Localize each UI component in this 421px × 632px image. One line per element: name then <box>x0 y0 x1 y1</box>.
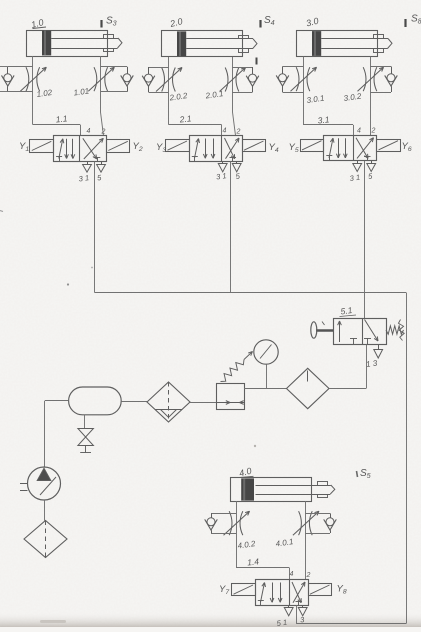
svg-text:4: 4 <box>223 128 227 135</box>
svg-text:4: 4 <box>357 128 361 135</box>
svg-text:3 1: 3 1 <box>78 173 90 183</box>
svg-text:2: 2 <box>101 129 106 136</box>
svg-text:1 3: 1 3 <box>366 358 379 369</box>
svg-text:2: 2 <box>306 572 311 579</box>
svg-text:5 1: 5 1 <box>276 618 288 627</box>
svg-text:2.1: 2.1 <box>178 113 192 124</box>
svg-text:3 1: 3 1 <box>349 173 361 183</box>
svg-text:3 1: 3 1 <box>216 171 228 181</box>
svg-text:3.1: 3.1 <box>317 114 330 125</box>
svg-text:2: 2 <box>371 128 376 135</box>
svg-text:1.1: 1.1 <box>55 113 68 124</box>
svg-text:4: 4 <box>87 128 91 135</box>
svg-text:5.1: 5.1 <box>340 305 353 317</box>
svg-text:2: 2 <box>236 129 241 136</box>
svg-text:4: 4 <box>290 571 294 578</box>
svg-text:1.4: 1.4 <box>247 556 260 567</box>
